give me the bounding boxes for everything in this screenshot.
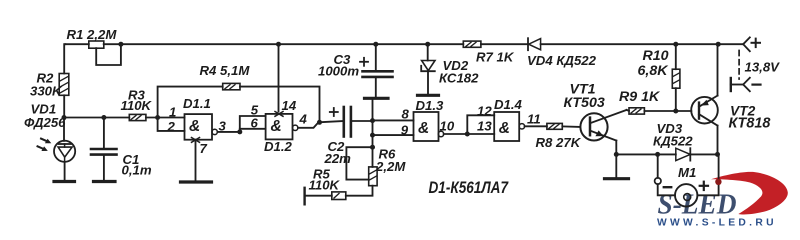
svg-text:R4 5,1M: R4 5,1M bbox=[200, 63, 251, 78]
svg-text:13,8V: 13,8V bbox=[745, 60, 781, 75]
top rail wire bbox=[65, 43, 89, 45]
wire VT1 emitter node bbox=[614, 152, 619, 157]
gate D1.3 bbox=[414, 112, 439, 141]
node R9/R10/VT2 base junction bbox=[673, 109, 678, 114]
photodiode VD1 bbox=[63, 118, 65, 141]
node B after R3 bbox=[155, 115, 160, 120]
svg-text:2,2M: 2,2M bbox=[375, 159, 406, 174]
wire pin12 loop bbox=[467, 115, 494, 134]
wire R8 to VT1 bbox=[562, 125, 579, 128]
svg-text:VD4 КД522: VD4 КД522 bbox=[527, 53, 597, 68]
svg-text:R9 1K: R9 1K bbox=[619, 89, 661, 105]
svg-text:0,1m: 0,1m bbox=[122, 163, 152, 178]
wire pin5 loop bbox=[240, 116, 266, 132]
ground under VT1 emitter bbox=[605, 177, 629, 180]
wire R5 to terminal bbox=[305, 195, 332, 197]
node M1 left junction bbox=[655, 152, 660, 157]
terminal sensor input bar bbox=[303, 188, 305, 205]
resistor R9 bbox=[629, 108, 644, 114]
svg-text:&: & bbox=[418, 120, 429, 137]
resistor R3 bbox=[129, 114, 146, 120]
node at R1 right bbox=[118, 42, 123, 47]
pin 14 mark bbox=[275, 112, 283, 117]
wire pin2 loop bbox=[158, 118, 185, 131]
resistor R7 bbox=[463, 41, 481, 47]
gate D1.2 bbox=[266, 114, 293, 139]
svg-text:1: 1 bbox=[169, 104, 176, 119]
node pin9 junction bbox=[370, 133, 375, 138]
svg-text:1000m: 1000m bbox=[318, 63, 359, 78]
wire R9 to node bbox=[644, 110, 691, 112]
capacitor C2 bbox=[342, 107, 345, 137]
svg-text:R8 27K: R8 27K bbox=[536, 135, 582, 150]
wire D1.2 out to C2 bbox=[298, 121, 344, 128]
svg-text:6: 6 bbox=[251, 116, 259, 131]
wire D1.4 out bbox=[525, 125, 547, 127]
wire vertical chain bbox=[372, 100, 374, 167]
red node on logo bbox=[715, 179, 721, 185]
svg-text:&: & bbox=[189, 118, 200, 135]
resistor R2 bbox=[59, 74, 69, 96]
ground under D1.1 bbox=[181, 180, 212, 183]
wire pin13 bbox=[467, 133, 494, 135]
ground under C3 bbox=[365, 97, 389, 100]
wire R3 to gate bbox=[146, 117, 185, 119]
svg-text:6,8K: 6,8K bbox=[638, 63, 670, 79]
svg-text:4: 4 bbox=[299, 112, 308, 127]
svg-text:ФД256: ФД256 bbox=[24, 115, 66, 130]
gate D1.1 bbox=[185, 114, 213, 140]
resistor R5 bbox=[332, 192, 346, 200]
power plus terminal bbox=[743, 37, 750, 44]
resistor R10 bbox=[675, 44, 677, 69]
svg-text:13: 13 bbox=[477, 119, 492, 134]
svg-text:КД522: КД522 bbox=[653, 134, 693, 149]
motor M1 bbox=[675, 184, 697, 206]
svg-text:D1.3: D1.3 bbox=[416, 98, 445, 113]
wire pin8 bbox=[373, 119, 414, 121]
node D1.1 output junction bbox=[237, 129, 242, 134]
gate D1.4 bbox=[494, 112, 519, 141]
svg-text:M1: M1 bbox=[678, 165, 696, 180]
svg-text:8: 8 bbox=[402, 107, 410, 122]
light arrows bbox=[41, 139, 49, 142]
svg-text:WWW.S-LED.RU: WWW.S-LED.RU bbox=[657, 218, 774, 229]
wire C2 out bbox=[351, 120, 373, 122]
wire D1.3 out bbox=[444, 133, 468, 135]
node R6 top junction bbox=[370, 145, 375, 150]
dashed connector line bbox=[738, 51, 740, 80]
wire R2 to node bbox=[63, 95, 65, 117]
wire R4 to pin4 node bbox=[240, 87, 320, 123]
wire pin7 to ground bbox=[195, 140, 197, 181]
svg-text:R10: R10 bbox=[643, 48, 669, 64]
svg-text:14: 14 bbox=[282, 98, 297, 113]
svg-text:R7 1K: R7 1K bbox=[476, 50, 515, 65]
wire R4 feedback bbox=[158, 87, 223, 118]
svg-text:9: 9 bbox=[401, 122, 409, 137]
node pin4/R4 junction bbox=[317, 120, 322, 125]
node R10 rail junction bbox=[673, 42, 678, 47]
wire loop under R1 bbox=[96, 44, 121, 65]
svg-text:11: 11 bbox=[527, 111, 541, 126]
node VD2 rail junction bbox=[425, 42, 430, 47]
node D1.3 output junction bbox=[465, 132, 470, 137]
zener VD2 bbox=[427, 44, 429, 60]
svg-text:D1-К561ЛА7: D1-К561ЛА7 bbox=[429, 179, 509, 197]
node VT2 emitter rail junction bbox=[716, 42, 721, 47]
resistor R6 bbox=[369, 167, 377, 186]
wire pin14 to rail bbox=[278, 44, 280, 111]
ground under C1 bbox=[94, 180, 116, 183]
resistor R1 bbox=[89, 41, 104, 48]
diode VD3 bbox=[676, 148, 691, 160]
resistor R4 bbox=[223, 83, 240, 89]
node pin14 rail junction bbox=[276, 42, 281, 47]
svg-text:110K: 110K bbox=[121, 98, 153, 113]
node C3 rail junction bbox=[373, 42, 378, 47]
logo swoosh bbox=[711, 172, 788, 215]
svg-text:D1.2: D1.2 bbox=[264, 139, 293, 154]
diode VD4 bbox=[527, 38, 529, 50]
svg-text:КТ503: КТ503 bbox=[564, 95, 605, 111]
wire D1.1 out bbox=[217, 131, 239, 133]
motor M1 branch bbox=[657, 154, 659, 178]
ground under VD2 bbox=[418, 94, 439, 97]
wire pin9 bbox=[373, 134, 414, 136]
pin 7 mark bbox=[192, 138, 200, 143]
svg-text:110K: 110K bbox=[309, 177, 341, 192]
wire loop at R6 bbox=[346, 147, 372, 179]
svg-text:12: 12 bbox=[477, 104, 492, 119]
node M1 right junction bbox=[715, 152, 720, 157]
svg-text:D1.4: D1.4 bbox=[494, 97, 523, 112]
resistor R8 bbox=[547, 123, 562, 129]
wire input node line bbox=[64, 117, 129, 119]
node pin8 junction bbox=[370, 118, 375, 123]
wire left drop to R2 bbox=[64, 44, 65, 73]
svg-text:&: & bbox=[271, 118, 282, 135]
node C1 top bbox=[101, 115, 106, 120]
node A (input node) bbox=[62, 115, 67, 120]
svg-text:R1 2,2M: R1 2,2M bbox=[67, 27, 118, 42]
svg-text:7: 7 bbox=[200, 141, 208, 156]
wire VT1 collector to R9 bbox=[627, 109, 630, 112]
power minus terminal bbox=[730, 78, 732, 91]
transistor VT2 bbox=[691, 97, 718, 124]
svg-text:КТ818: КТ818 bbox=[729, 116, 771, 132]
wire pin6 bbox=[240, 128, 266, 130]
ground under VD1 bbox=[54, 180, 75, 183]
svg-text:330K: 330K bbox=[30, 84, 63, 99]
svg-text:КС182: КС182 bbox=[439, 71, 479, 86]
svg-text:10: 10 bbox=[440, 119, 455, 134]
svg-text:2: 2 bbox=[167, 119, 176, 134]
svg-text:D1.1: D1.1 bbox=[183, 96, 211, 111]
wire R6 bottom to R5 bbox=[346, 186, 373, 196]
transistor VT1 bbox=[580, 113, 607, 140]
capacitor C3 bbox=[375, 44, 377, 70]
svg-text:&: & bbox=[499, 120, 510, 137]
capacitor C1 bbox=[103, 118, 105, 149]
